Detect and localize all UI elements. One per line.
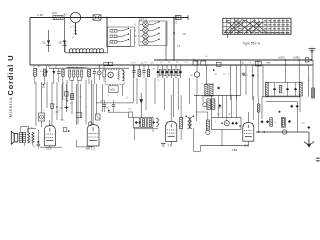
resistor R14 [142,119,144,127]
wire V4 right vertical [253,96,255,120]
FM tuner dashed box [106,70,125,85]
wire right edge vertical [312,60,314,98]
wire center-right top [194,94,241,96]
wire lamp drop [75,23,77,35]
wire det bottom [133,128,158,130]
wire det drops [134,129,136,140]
node below lamp [75,30,77,32]
wire V2 bottom [92,145,94,148]
tube socket connection table [223,18,291,34]
diode D11 big [140,93,142,118]
grid cap circle V2 [89,122,93,126]
svg-text:UKW: UKW [110,89,116,91]
wire center horiz2 [108,111,128,113]
wire v1 area [37,130,39,142]
wire drops row2 long [136,78,138,104]
heater coils L row [69,49,73,53]
diode D14 [152,121,155,124]
resistor R6 zigzag [118,71,120,80]
voltage selector outline [108,27,135,47]
selector resistor 125V [110,35,117,38]
resistor R13 boxed [281,117,285,127]
diode D4 [286,88,289,91]
diode D17 [235,122,238,125]
diode D1 [52,71,55,74]
ratio detector frame [266,82,302,84]
node diode small [45,71,47,73]
svg-text:·8V: ·8V [63,14,67,17]
bus upper HT [154,59,312,61]
wire group hooks [70,77,74,81]
wire jack down [41,121,43,127]
band lamp U lead [140,24,143,26]
diode D8 [260,120,263,123]
selector common wire [130,29,132,46]
bus main B+ [30,64,313,66]
driver circle [203,103,207,107]
IF transformer T3 [188,118,190,129]
capacitor C3 electrolytic [64,18,66,53]
page number right [316,157,319,159]
wire drops cr [195,95,197,121]
resistor R19 [71,94,74,100]
wire bottom step [200,146,202,152]
capacitor C11 [112,104,115,106]
capacitor C4 [57,71,60,73]
group bracket [67,66,85,68]
tuning cap circle [108,72,113,77]
tube V1 output [44,126,55,146]
small box mid [76,113,82,118]
ratio det coil right [299,83,302,97]
resistor R3 [43,69,46,76]
band lamp K lead [140,29,143,31]
transformer boxes on bus [193,61,198,65]
wire r11 [258,97,260,104]
svg-text:μ: μ [158,80,159,82]
diode D16 [231,122,234,125]
FM sub box [109,86,119,93]
wire V4 bottom [247,141,249,146]
svg-text:W: W [31,128,33,130]
diode D2 [251,74,254,77]
band switch contact L [148,41,153,43]
wire verticals cr2 [218,95,220,117]
band lamp L [143,39,148,44]
wire verticals row2 [133,65,135,70]
wire loop verticals [261,97,263,119]
diode D6 [290,105,293,108]
svg-text:L·C1: L·C1 [71,25,78,29]
resistor R18 small [65,92,69,97]
node dots AF [221,122,223,124]
wire verticals right-mid [230,65,232,100]
wire R17 [207,112,209,120]
diode D15 [218,104,221,107]
capacitor small C13 [43,84,45,86]
tube V3 [166,122,177,142]
capacitor C12 [37,143,40,145]
box on bus right [255,61,261,66]
selector contact 220V [117,41,122,43]
resistor R17 [206,120,209,130]
node B junction [106,17,108,19]
band lamp U [143,22,148,27]
wire drops row1 [34,76,36,84]
node dot center [108,110,110,112]
node dots bottom right [258,131,260,133]
wire center horiz [96,102,133,104]
ground V3 [161,143,166,145]
wire V1 bottom [49,146,51,147]
fuse F1 [93,15,101,20]
wire selector drop [106,18,108,48]
phone jack box [39,113,45,121]
bottom bus right [256,131,309,133]
wire V3 cathode [170,142,172,146]
tube V4 [243,123,254,142]
node dots left-mid [66,100,68,102]
svg-text:Minerva: Minerva [8,97,13,118]
chassis arrow symbol [304,142,314,145]
svg-text:C: C [109,45,111,48]
node dot bottom left [37,141,39,143]
wire AF box down [221,129,223,145]
capacitor C2 electrolytic [48,30,50,52]
diode D9 [266,120,269,123]
svg-text:Tr: Tr [193,58,195,61]
resistor R16 [180,118,183,129]
band switch contact U [148,24,153,26]
choke L4 zigzag [28,132,30,143]
tick mid [56,111,59,113]
interference filter box [176,15,182,19]
svg-text:T·: T· [197,115,199,117]
svg-text:40·: 40· [242,62,245,64]
wire speaker top [21,126,29,128]
selector resistor 220V [110,41,117,44]
bus secondary [49,67,129,69]
box det left [133,118,139,128]
trimmer circle [97,71,101,75]
coil L2 [122,71,124,81]
boxes on bus small [104,62,108,65]
selector contact 125V [117,35,122,37]
ratio det coil left [265,83,268,97]
wire V2 top [92,118,94,125]
transformer T4 [207,99,210,110]
capacitor C8 [142,70,145,72]
node A junction [64,17,66,19]
diode D5 [294,88,297,91]
wire long verticals left-mid [35,82,37,126]
svg-text:Cordial U: Cordial U [6,56,15,96]
wire loop top [262,96,300,98]
output transformer T5 [19,132,22,142]
diode D7 [296,105,299,108]
wire bottom bus [201,145,249,147]
small box between tubes [63,127,66,131]
capacitor C6b [103,70,105,77]
tube V2 [87,125,99,146]
resistor R20 small [51,104,54,109]
diode D12 [135,121,138,124]
band switch contact M [148,35,153,37]
diode D13 [138,121,141,124]
svg-text:◦ M: ◦ M [182,32,187,36]
AF box wide [212,118,242,130]
band indicator box [139,21,167,46]
diode D3 [273,88,276,91]
pilot lamp La1 [70,12,80,22]
capacitor C10 [103,104,106,106]
wire T3 down [193,129,195,152]
band lamp M [143,33,148,38]
svg-text:μ: μ [222,99,223,101]
resistor R7 [138,70,140,77]
band bank output wire [165,22,167,60]
box on bus mid [217,62,222,66]
wire V4 top [247,112,249,123]
wire transformer links [23,143,25,147]
svg-text:U 50: U 50 [37,13,43,17]
node dot loop [279,111,281,113]
svg-text:4,8Ω: 4,8Ω [232,148,238,152]
small box center [95,114,100,120]
capacitor C7 [132,70,135,72]
diode D18 [65,106,68,109]
wire to chassis arrow [308,132,310,142]
svg-text:+225V: +225V [278,57,286,60]
IF transformer T2 [205,85,208,96]
node dots T3 [185,115,187,117]
triode K circle [194,72,199,77]
resistor R5 [88,70,91,77]
resistor R1 on mains [53,15,63,19]
band lamp M lead [140,35,143,37]
tube heater circle [224,121,229,126]
node C junction [173,17,175,19]
svg-text:1M: 1M [151,63,154,65]
resistor R10 edge [312,88,315,98]
svg-text:ΩFF: ΩFF [267,62,272,64]
table lead tick [227,35,229,39]
resistor R8 [147,70,149,77]
svg-text:M: M [135,35,137,38]
node M dot and label [173,32,175,34]
capacitor group 4x0,1 [69,70,71,77]
node dot antenna [311,59,313,61]
diode D10 [288,120,291,123]
resistor R15 [149,119,151,127]
band lamp K [143,28,148,33]
heater chain wire [64,43,66,53]
wire verticals mid2 [61,84,63,120]
speaker LS [11,131,14,144]
svg-text:1kΩ: 1kΩ [52,11,57,15]
wire triode [196,60,198,72]
resistor R11 [257,104,260,112]
resistor R12 [270,118,273,126]
output terminal circle [283,130,287,134]
bus junction dots [285,59,287,61]
resistor R2 [34,69,37,77]
wire left drop [29,18,31,66]
wire mains top [30,17,188,19]
wire T2 leads [205,65,207,84]
svg-text:C·: C· [86,107,89,109]
svg-text:0,1: 0,1 [174,22,178,25]
resistor R9 [279,85,282,93]
box C2 [128,112,132,118]
wire node C drop [173,18,175,61]
wire cr horiz [196,111,208,113]
box det right [147,118,153,128]
band switch contact K [148,29,153,31]
svg-text:DFT·U: DFT·U [139,17,147,21]
selector contact 110V [117,30,122,32]
coil L3 [156,118,158,127]
band lamp L lead [140,41,143,43]
svg-text:Type 557·U: Type 557·U [243,42,261,46]
diode group with resistors [157,65,159,70]
capacitor C9 [242,72,245,74]
box on upper bus right [305,58,308,62]
diamond on chassis wire [307,126,310,129]
svg-text:U: U [135,24,137,27]
capacitor C5 [93,71,96,73]
resistor R4 [62,70,64,77]
wire V1 top [49,120,51,126]
selector resistor 110V [110,30,117,33]
node dots T2 [213,69,215,71]
antenna symbol [311,48,313,61]
choke top link wire [27,129,29,132]
wire FM drops [110,85,112,86]
mains end terminal [187,15,189,19]
box det mid [140,118,146,128]
wire V3 top [170,95,172,122]
